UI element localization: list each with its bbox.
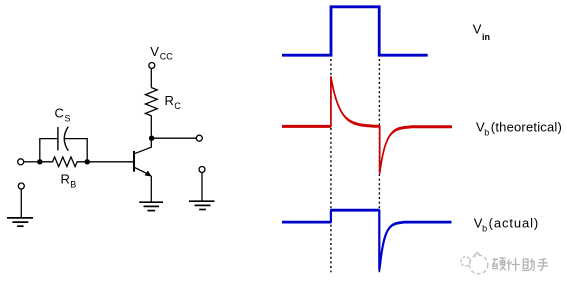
svg-text:in: in <box>482 32 490 42</box>
svg-text:b: b <box>482 224 487 234</box>
output terminal (open circle) <box>196 135 202 141</box>
dotted timing line t2 <box>378 59 380 272</box>
wire node B2 to transistor base <box>87 161 133 163</box>
watermark logo <box>461 253 488 274</box>
svg-text:S: S <box>65 113 71 123</box>
output ground terminal (open circle) <box>199 167 205 173</box>
svg-text:R: R <box>165 93 174 108</box>
input terminal (left open circle) <box>18 159 24 165</box>
node C (collector junction dot) <box>149 136 154 141</box>
svg-text:(theoretical): (theoretical) <box>491 119 562 134</box>
svg-text:R: R <box>61 172 70 187</box>
wire node C to output terminal <box>152 137 196 139</box>
wire ground stub output <box>201 173 203 202</box>
resistor RC <box>145 88 157 117</box>
svg-text:V: V <box>473 22 482 37</box>
svg-text:b: b <box>484 128 489 138</box>
svg-text:C: C <box>55 105 64 120</box>
node B2 (right junction dot) <box>85 159 90 164</box>
svg-text:C: C <box>174 101 181 111</box>
resistor RB <box>40 157 87 167</box>
dotted timing line t1 <box>330 59 332 272</box>
wire capacitor branch left <box>40 139 58 162</box>
watermark text 硬件助手 (vector strokes) <box>493 258 549 271</box>
wire VCC to RC <box>150 69 152 88</box>
ground (output side) <box>189 201 215 209</box>
capacitor CS <box>58 127 68 151</box>
transistor Q1 <box>134 141 151 203</box>
wire ground stub input <box>20 189 22 218</box>
node B1 (left junction dot) <box>37 159 42 164</box>
svg-text:V: V <box>150 44 159 59</box>
waveform Vin (blue pulse) <box>282 7 428 55</box>
svg-text:(actual): (actual) <box>489 215 540 230</box>
input ground terminal (open circle) <box>18 183 24 189</box>
ground (input side) <box>7 218 33 226</box>
wire RC to node C <box>150 116 152 138</box>
VCC terminal (open circle) <box>149 63 155 69</box>
ground (emitter) <box>139 202 163 210</box>
svg-text:CC: CC <box>160 52 173 62</box>
wire capacitor branch right <box>64 139 87 162</box>
waveform Vb theoretical (red) <box>282 75 452 175</box>
svg-text:B: B <box>70 180 76 190</box>
wire input to node B1 <box>24 161 40 163</box>
waveform Vb actual (blue) <box>282 209 452 271</box>
